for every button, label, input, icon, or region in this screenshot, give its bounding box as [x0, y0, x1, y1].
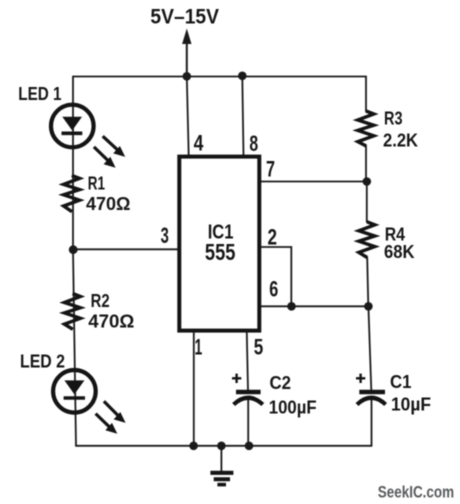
LED2 emission arrow lower: [96, 414, 111, 429]
LED1 emission arrow lower: [94, 147, 110, 162]
wire supply arrow shaft: [186, 40, 188, 77]
svg-text:SeekIC.com: SeekIC.com: [378, 483, 454, 502]
wire pin 8 drop: [242, 77, 243, 157]
svg-text:10µF: 10µF: [391, 394, 431, 414]
node C2/ground-rail junction: [245, 442, 254, 451]
C2 plus sign: [232, 374, 241, 383]
svg-text:5V–15V: 5V–15V: [150, 6, 219, 29]
wire pin 2 jog: [261, 247, 292, 306]
svg-text:4: 4: [194, 130, 204, 155]
svg-text:100µF: 100µF: [269, 397, 317, 417]
wire pin 3: [73, 248, 178, 250]
resistor R2: [64, 294, 80, 330]
supply arrowhead: [182, 29, 191, 45]
node ground junction: [217, 442, 226, 451]
LED LED2: [53, 370, 126, 434]
wire pin 5 / C2 top lead: [247, 333, 248, 390]
wire left rail lower: [73, 250, 76, 446]
svg-text:LED 2: LED 2: [20, 350, 65, 371]
wire R3 bottom lead: [365, 146, 367, 182]
svg-text:R3: R3: [384, 108, 403, 128]
wire ground stub: [220, 446, 222, 471]
capacitor C2: [232, 374, 263, 405]
node pin1/ground-rail junction: [189, 442, 198, 451]
node R4/C1/pin6 junction: [364, 302, 373, 311]
wire C2 bottom lead: [247, 399, 249, 446]
svg-text:LED 1: LED 1: [18, 83, 61, 104]
svg-text:C1: C1: [390, 372, 412, 392]
wire top positive rail: [73, 76, 366, 78]
svg-text:3: 3: [161, 223, 169, 248]
svg-text:7: 7: [266, 156, 275, 181]
svg-text:8: 8: [249, 131, 258, 156]
wire pin 1 drop: [193, 333, 195, 446]
wire C1 bottom lead: [371, 399, 373, 446]
svg-text:68K: 68K: [384, 242, 415, 262]
svg-text:R1: R1: [88, 174, 105, 194]
LED2 emission arrow upper: [104, 401, 120, 417]
node R3/R4/pin7 junction: [363, 177, 372, 186]
node pin3 junction: [69, 245, 78, 254]
svg-text:470Ω: 470Ω: [86, 194, 130, 214]
svg-text:2.2K: 2.2K: [383, 130, 418, 150]
op-amp substitute: IC U1 box (555 timer IC1): [179, 157, 259, 331]
ground: [210, 473, 233, 485]
LED LED1: [51, 105, 125, 168]
wire pin 4 drop: [187, 77, 189, 157]
svg-text:6: 6: [269, 276, 278, 301]
wire C1 top lead: [368, 306, 371, 390]
svg-text:5: 5: [254, 335, 264, 360]
wire bottom ground rail: [76, 445, 372, 447]
wire pin 7 to R3/R4 node: [261, 181, 367, 183]
node supply junction: [183, 72, 192, 81]
svg-text:1: 1: [195, 334, 203, 359]
resistor R1: [64, 175, 80, 211]
wire R3 top lead: [365, 77, 367, 112]
resistor R4: [359, 222, 375, 258]
node pin2/pin6 junction: [287, 302, 296, 311]
wire R4 top lead: [366, 182, 368, 223]
resistor R3: [358, 111, 374, 146]
LED1 emission arrow upper: [103, 136, 119, 151]
capacitor C1: [356, 374, 386, 405]
svg-text:555: 555: [205, 239, 236, 265]
C1 plus sign: [356, 374, 365, 383]
wire pin 6: [261, 305, 369, 307]
wire left rail upper: [72, 77, 74, 251]
node pin8 junction: [238, 72, 247, 81]
svg-text:R2: R2: [91, 291, 110, 311]
wire R4 bottom lead: [367, 258, 368, 307]
svg-text:C2: C2: [270, 373, 292, 393]
svg-text:470Ω: 470Ω: [88, 311, 134, 331]
svg-text:2: 2: [268, 224, 278, 249]
